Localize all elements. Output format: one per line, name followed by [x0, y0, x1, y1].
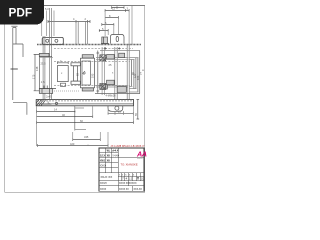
- upper rail dashed bar: [37, 44, 141, 46]
- center dashed line upper: [54, 61, 130, 63]
- bar mid line: [36, 103, 133, 105]
- svg-text:XXXX: XXXX: [100, 166, 107, 168]
- bar right hole: [115, 106, 119, 110]
- channel bottom flange: [71, 81, 80, 84]
- title block outer frame: [99, 148, 144, 191]
- bottom dim line 2: [37, 115, 93, 118]
- upper-right cluster plate 1: [107, 55, 115, 60]
- svg-text:Y:4.4X: Y:4.4X: [112, 156, 119, 158]
- center vertical dim: [96, 51, 99, 94]
- overall dim line lower: [38, 144, 109, 147]
- vertical rod pair C: [76, 21, 78, 44]
- svg-text:420: 420: [70, 142, 75, 146]
- pdf badge: [0, 0, 44, 25]
- svg-text:195: 195: [91, 73, 95, 78]
- box top line: [100, 50, 140, 52]
- projection symbol: [137, 177, 139, 179]
- svg-text:TO: XIANGKE: TO: XIANGKE: [121, 163, 138, 167]
- axis cross ticks: [104, 47, 120, 49]
- vertical singles H: [102, 47, 104, 95]
- svg-text:4-M8x20: 4-M8x20: [106, 93, 117, 97]
- lug hole 2: [55, 39, 58, 42]
- svg-text:XXX/X: XXX/X: [100, 183, 107, 185]
- svg-text:PDF: PDF: [9, 6, 33, 20]
- svg-text:XB: XB: [107, 156, 111, 158]
- top dim chain line: [48, 20, 90, 23]
- bar hatched left end: [36, 100, 45, 106]
- left strip top tick: [11, 25, 17, 27]
- svg-text:5.3: 5.3: [45, 7, 49, 11]
- svg-text:XWJ: XWJ: [100, 161, 106, 163]
- right stacked dim 4: [99, 29, 108, 32]
- svg-text:*: *: [88, 143, 89, 147]
- left vertical dim pair: [34, 54, 41, 90]
- long vertical rod pair B: [50, 8, 52, 99]
- left strip mid weld tick: [11, 68, 18, 70]
- upper-right cluster plate 2: [119, 53, 125, 57]
- sheet border frame: [5, 6, 145, 193]
- lower-left bracket: [39, 86, 56, 94]
- svg-text:148: 148: [35, 66, 39, 71]
- left strip side view: [13, 28, 16, 101]
- left strip bottom hook: [13, 103, 27, 115]
- center rect part A: [58, 66, 69, 82]
- svg-text:AA: AA: [136, 149, 147, 158]
- right nested vertical dims: [132, 51, 140, 94]
- left strip branch: [13, 44, 23, 57]
- svg-text:WL: WL: [107, 151, 111, 153]
- part A top dim: [58, 62, 69, 65]
- dotted line lower left: [54, 90, 80, 92]
- axis dashed line below rail: [54, 48, 133, 50]
- center dashed line lower: [54, 85, 130, 87]
- title block: [99, 148, 144, 191]
- rotated dim texts: [31, 66, 144, 116]
- frame inner rect: [82, 61, 91, 85]
- svg-text:d=4.4: d=4.4: [112, 150, 119, 153]
- bar rivet tick row: [37, 100, 133, 102]
- lower-right cluster plate 2: [117, 86, 126, 92]
- top plate with lugs: [42, 37, 63, 44]
- long rail angle upper: [39, 57, 128, 59]
- svg-text:XXXX XX: XXXX XX: [119, 189, 129, 191]
- vertical rod pair D: [85, 21, 87, 44]
- title block h-line right under logo: [118, 157, 144, 159]
- long vertical rod pair A: [43, 36, 45, 99]
- right stacked dim 3: [102, 23, 114, 26]
- svg-text:1.6: 1.6: [41, 80, 45, 84]
- sub-grid mid line: [118, 176, 144, 178]
- long bar outline: [36, 100, 133, 106]
- svg-text:25.5: 25.5: [41, 61, 47, 65]
- bar leader arrow: [41, 103, 52, 106]
- frame hole mark: [83, 71, 86, 74]
- upper-right hatch block: [100, 55, 106, 61]
- dome slot: [116, 36, 118, 41]
- long vertical rod pair F: [115, 47, 117, 99]
- lower-right hatch block: [100, 84, 106, 90]
- center channel part B top flange: [71, 63, 80, 66]
- svg-text:XB: XB: [107, 161, 111, 163]
- title block h-lines left: [99, 153, 118, 168]
- frame top plate: [82, 55, 93, 58]
- mid reference vertical below bar: [74, 106, 76, 131]
- upper-left bracket: [39, 53, 52, 56]
- frame bottom plate: [82, 88, 93, 91]
- svg-text:xxxxxxx: xxxxxxx: [137, 158, 143, 160]
- part A foot marks: [61, 83, 66, 86]
- svg-text:XXX-XX: XXX-XX: [134, 189, 143, 191]
- svg-text:XXXX XXXXXXX: XXXX XXXXXXX: [119, 183, 137, 185]
- bottom row verticals: [129, 181, 133, 192]
- right stacked dim 1: [105, 9, 129, 12]
- long vertical rod pair G: [127, 44, 129, 99]
- bottom extension verticals: [37, 106, 134, 146]
- sub-grid verticals: [122, 173, 141, 181]
- tiny dimension texts: [41, 7, 129, 148]
- overall dim line upper: [73, 138, 101, 141]
- right pouch dim line: [108, 112, 133, 115]
- mid reference side lines: [75, 108, 86, 130]
- svg-text:120: 120: [133, 73, 137, 78]
- small bracket left of dome: [101, 37, 109, 44]
- bottom dim line 3: [37, 121, 134, 124]
- right stacked dim 0: [112, 6, 124, 8]
- right stacked dim 2: [105, 16, 118, 19]
- title block v-lines: [106, 148, 119, 191]
- right extension verticals: [105, 6, 132, 44]
- right dome bracket: [110, 35, 124, 44]
- svg-text:XXXX: XXXX: [100, 189, 107, 191]
- title block h-lines full: [99, 173, 144, 186]
- lower rail line: [95, 93, 140, 95]
- bottom dim line 1: [37, 110, 75, 113]
- svg-text:JX:4.2M8 M5x10 2-B 4X06 tY: JX:4.2M8 M5x10 2-B 4X06 tY: [110, 144, 144, 148]
- lug hole 1: [46, 39, 49, 42]
- sheet background: [0, 0, 149, 198]
- arrow dots on mid reference: [74, 111, 75, 123]
- top extension verticals: [42, 11, 54, 37]
- lower-right cluster plate 3: [102, 85, 108, 89]
- svg-text:SJ.X: SJ.X: [100, 156, 105, 158]
- svg-text:345: 345: [84, 135, 89, 139]
- bar small hole: [55, 102, 57, 104]
- right vertical dim at bar: [137, 100, 140, 120]
- lower-right cluster plate 1: [107, 80, 115, 85]
- channel web: [74, 66, 78, 81]
- long rail angle lower: [96, 85, 128, 87]
- center frame part outline: [81, 58, 95, 88]
- svg-text:2x45: 2x45: [46, 95, 52, 99]
- right dim tie ticks: [129, 58, 139, 92]
- title block tiny texts: [100, 150, 145, 191]
- bar right U pouch: [108, 106, 123, 112]
- svg-text:175: 175: [31, 74, 35, 79]
